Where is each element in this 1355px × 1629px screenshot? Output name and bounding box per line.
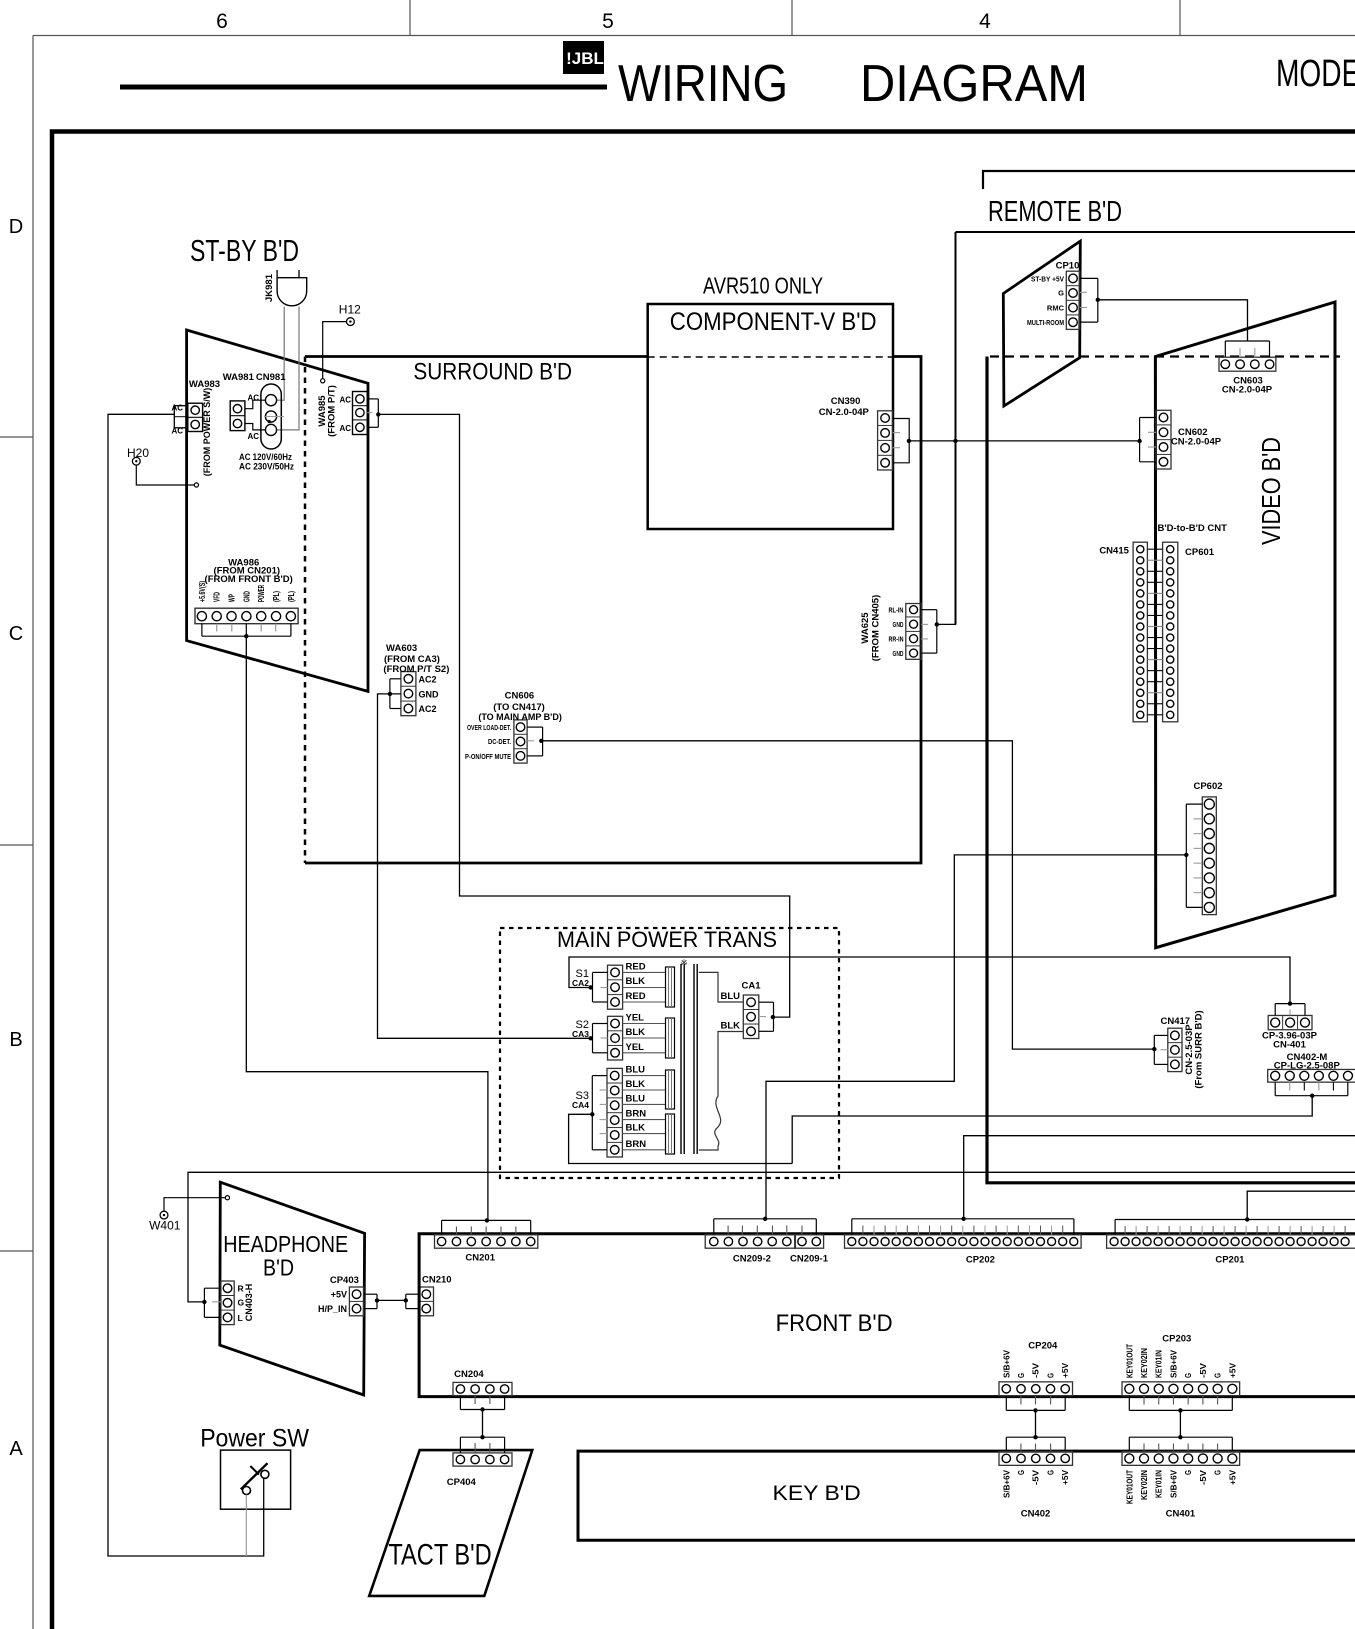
wire CP403 to CN210 <box>377 1299 406 1301</box>
svg-text:+5V: +5V <box>1228 1469 1237 1485</box>
svg-text:CN-2.0-04P: CN-2.0-04P <box>1171 437 1222 448</box>
svg-text:+5V: +5V <box>1061 1362 1070 1378</box>
svg-text:(FROM P/T): (FROM P/T) <box>327 385 338 437</box>
svg-text:HEADPHONE: HEADPHONE <box>223 1231 348 1257</box>
section dashed line through boards <box>990 355 1340 357</box>
wire CN390 to CN602 <box>909 440 1139 442</box>
connector WA985 <box>353 392 368 435</box>
svg-text:AC: AC <box>339 424 351 433</box>
svg-text:CN403-H: CN403-H <box>244 1284 254 1322</box>
svg-text:BRN: BRN <box>626 1139 647 1150</box>
transformer winding S2 <box>666 1018 675 1058</box>
svg-text:Power SW: Power SW <box>200 1424 309 1452</box>
plug JK981 <box>277 270 299 278</box>
svg-text:BLU: BLU <box>720 991 740 1002</box>
grid row tick D/C <box>0 436 33 438</box>
svg-text:G: G <box>1214 1470 1223 1475</box>
svg-text:CA4: CA4 <box>572 1100 589 1110</box>
connector CN402-M CP-LG-2.5-08P <box>1268 1069 1355 1082</box>
svg-text:RED: RED <box>626 961 646 972</box>
wire CP201 to right edge <box>1247 1191 1355 1219</box>
svg-text:BLK: BLK <box>626 1079 646 1090</box>
connector CN390 <box>878 411 893 470</box>
wire CP203 to CN401 <box>1179 1410 1181 1437</box>
connector CN602 <box>1156 410 1171 469</box>
grid column tick 4/3 <box>1179 0 1181 36</box>
connector CP203 <box>1122 1382 1240 1396</box>
connector CP403 <box>349 1287 363 1316</box>
CP10 bracket <box>1080 277 1098 279</box>
grid row tick B/A <box>0 1250 33 1252</box>
CN402-M bracket <box>1274 1082 1276 1096</box>
svg-text:CA2: CA2 <box>572 978 589 988</box>
power switch wire lower terminal <box>245 1495 247 1556</box>
svg-text:WIRING: WIRING <box>618 55 788 113</box>
wire branch to WA625 <box>937 441 956 625</box>
connector CP10 <box>1066 271 1079 329</box>
thick bus wire <box>987 357 1355 1183</box>
CP202 bracket <box>851 1219 853 1235</box>
connector WA983 <box>188 403 203 431</box>
WA985 bracket <box>367 398 378 400</box>
svg-text:CA1: CA1 <box>741 981 761 992</box>
CP203 bracket <box>1128 1396 1130 1411</box>
svg-text:FRONT B'D: FRONT B'D <box>776 1310 893 1337</box>
svg-text:CN390: CN390 <box>831 396 861 407</box>
svg-text:WP: WP <box>228 594 237 602</box>
wire W401 to headphone board <box>164 1198 225 1212</box>
svg-text:+5V: +5V <box>1228 1362 1237 1378</box>
wire S3 to junction <box>569 1114 793 1163</box>
svg-text:CP602: CP602 <box>1193 781 1222 792</box>
connector S3 CA4 <box>607 1068 622 1157</box>
wire H20 to ST-BY board <box>136 465 194 485</box>
connector CA1 <box>743 995 759 1039</box>
svg-text:S/B+6V: S/B+6V <box>1169 1349 1178 1378</box>
connector S1 CA2 <box>608 965 623 1009</box>
CN-401 bracket <box>1274 1004 1276 1016</box>
svg-text:5: 5 <box>602 10 614 33</box>
S3 bracket <box>592 1075 607 1077</box>
svg-text:(From SURR B'D): (From SURR B'D) <box>1194 1010 1205 1088</box>
WA983 mating housing <box>174 406 188 428</box>
svg-text:(FROM CN405): (FROM CN405) <box>871 595 882 662</box>
svg-text:G: G <box>1058 289 1064 298</box>
svg-text:AC: AC <box>339 396 351 405</box>
CN417 bracket <box>1154 1034 1168 1036</box>
svg-text:CN415: CN415 <box>1099 546 1129 557</box>
CP403 bracket <box>364 1293 377 1295</box>
svg-text:!JBL: !JBL <box>566 49 604 68</box>
svg-text:B: B <box>9 1029 22 1051</box>
svg-text:R: R <box>238 1284 244 1294</box>
svg-text:CN204: CN204 <box>454 1369 484 1380</box>
CN401 bracket <box>1128 1437 1130 1451</box>
header underline <box>120 85 607 90</box>
connector CN209-2 <box>705 1235 795 1248</box>
WA986 bracket <box>201 624 203 637</box>
svg-text:CN209-2: CN209-2 <box>733 1254 771 1265</box>
svg-text:G: G <box>1214 1373 1223 1378</box>
svg-text:DIAGRAM: DIAGRAM <box>860 55 1088 113</box>
connector WA625 <box>906 604 922 660</box>
svg-text:GND: GND <box>419 690 440 700</box>
CN602 bracket <box>1140 417 1156 419</box>
svg-text:AC2: AC2 <box>419 675 437 685</box>
connector CN402 <box>999 1451 1073 1465</box>
ST-BY B'D board outline <box>187 330 368 691</box>
wire CP602 to CN209-2 <box>766 855 1186 1219</box>
svg-text:KEY01IN: KEY01IN <box>1155 1350 1164 1378</box>
CN390 bracket <box>893 419 910 463</box>
svg-text:(PL): (PL) <box>287 591 296 602</box>
wire CN606 to CN417 and beyond <box>543 741 1155 1049</box>
WA603 bracket <box>390 678 401 680</box>
svg-text:CN-2.0-04P: CN-2.0-04P <box>819 407 870 418</box>
connector CP204 <box>999 1382 1073 1396</box>
svg-text:S/B+6V: S/B+6V <box>1169 1469 1178 1498</box>
svg-text:CP-LG-2.5-08P: CP-LG-2.5-08P <box>1274 1060 1341 1071</box>
CN403-H bracket <box>204 1287 221 1289</box>
svg-text:B'D-to-B'D CNT: B'D-to-B'D CNT <box>1157 523 1227 534</box>
power switch symbol <box>243 1487 251 1495</box>
svg-text:(PL): (PL) <box>272 591 281 602</box>
svg-text:CP202: CP202 <box>966 1254 995 1265</box>
svg-text:W401: W401 <box>149 1219 181 1233</box>
svg-text:CP203: CP203 <box>1162 1334 1191 1345</box>
svg-text:CN-401: CN-401 <box>1273 1040 1306 1051</box>
svg-text:CN402: CN402 <box>1021 1508 1051 1519</box>
WA625 bracket <box>921 609 937 611</box>
svg-text:RL-IN: RL-IN <box>889 608 904 615</box>
svg-text:CN-2.0-04P: CN-2.0-04P <box>1222 384 1273 395</box>
connector WA986 <box>195 608 298 624</box>
S1 bracket <box>593 971 608 973</box>
svg-text:RMC: RMC <box>1047 304 1065 313</box>
svg-text:MAIN POWER TRANS: MAIN POWER TRANS <box>557 927 777 952</box>
svg-text:G: G <box>1017 1470 1026 1475</box>
svg-text:AC: AC <box>171 404 183 413</box>
connector CN415 <box>1133 542 1147 722</box>
connector CN603 <box>1219 357 1276 371</box>
COMPONENT-V dashed section line <box>648 356 893 358</box>
Power SW box <box>221 1450 291 1509</box>
svg-text:CN210: CN210 <box>422 1275 452 1286</box>
svg-text:BLK: BLK <box>626 1123 646 1134</box>
svg-text:KEY02IN: KEY02IN <box>1140 1470 1149 1500</box>
grid column tick 6/5 <box>409 0 411 36</box>
SURROUND B'D board outline <box>305 357 921 864</box>
wire CP204 to CN402 <box>1035 1410 1037 1437</box>
wire CP202 to right edge <box>964 1136 1355 1219</box>
svg-text:-5V: -5V <box>1032 1469 1041 1485</box>
wire CN204 to CP404 <box>482 1410 484 1438</box>
svg-text:COMPONENT-V B'D: COMPONENT-V B'D <box>670 308 877 336</box>
svg-text:DC-DET.: DC-DET. <box>488 737 511 746</box>
CP204 bracket <box>1005 1396 1007 1411</box>
svg-text:AC: AC <box>247 393 259 402</box>
wire H12 to SURROUND board <box>323 322 347 379</box>
svg-text:ST-BY B'D: ST-BY B'D <box>190 233 299 268</box>
svg-text:AC: AC <box>247 432 259 441</box>
svg-text:(TO MAIN AMP B'D): (TO MAIN AMP B'D) <box>478 712 561 722</box>
transformer winding S3 upper <box>666 1070 675 1109</box>
svg-text:CN606: CN606 <box>505 690 535 701</box>
connector CN210 <box>419 1287 433 1316</box>
svg-text:CN209-1: CN209-1 <box>790 1254 829 1265</box>
svg-text:+5.6V(S): +5.6V(S) <box>198 581 207 602</box>
connector CN417 <box>1168 1028 1182 1071</box>
svg-text:KEY01IN: KEY01IN <box>1155 1470 1164 1498</box>
connector CN209-1 <box>795 1235 824 1248</box>
svg-text:BLK: BLK <box>626 976 646 987</box>
transformer secondary winding <box>699 972 744 1002</box>
svg-text:KEY01OUT: KEY01OUT <box>1125 1470 1134 1504</box>
HEADPHONE B'D board outline <box>220 1182 365 1395</box>
grid row tick C/B <box>0 844 33 846</box>
S1 winding wires <box>623 971 666 973</box>
wire CP10 to CN603 <box>1098 300 1248 341</box>
connector S2 CA3 <box>608 1016 623 1060</box>
svg-text:CN401: CN401 <box>1166 1508 1196 1519</box>
transformer winding S1 <box>666 967 675 1007</box>
wire WA985 to CA1 via surround <box>378 414 789 1017</box>
svg-text:6: 6 <box>216 10 228 33</box>
KEY B'D board outline <box>578 1451 1355 1540</box>
svg-text:AC 230V/50Hz: AC 230V/50Hz <box>239 462 294 473</box>
wire JK981 to CN981 pin3 <box>277 307 299 430</box>
svg-text:BLU: BLU <box>626 1093 646 1104</box>
connector WA981 <box>230 401 245 431</box>
connector CP602 <box>1202 797 1216 915</box>
svg-text:CP403: CP403 <box>330 1275 359 1286</box>
svg-text:AC2: AC2 <box>419 704 437 714</box>
svg-text:JK981: JK981 <box>264 273 275 302</box>
svg-text:C: C <box>9 623 23 645</box>
connector CN403-H <box>221 1281 234 1325</box>
svg-text:GND: GND <box>893 651 904 658</box>
svg-text:-5V: -5V <box>1199 1362 1208 1378</box>
svg-text:GND: GND <box>893 622 904 629</box>
JBL logo <box>563 41 604 74</box>
transformer winding S3 lower <box>666 1114 675 1154</box>
svg-text:BLU: BLU <box>626 1065 646 1076</box>
svg-text:S/B+6V: S/B+6V <box>1002 1469 1011 1498</box>
svg-text:SURROUND B'D: SURROUND B'D <box>413 358 572 385</box>
svg-text:P-ON/OFF MUTE: P-ON/OFF MUTE <box>465 752 511 761</box>
VIDEO B'D board outline <box>1155 302 1335 948</box>
svg-text:REMOTE B'D: REMOTE B'D <box>988 196 1122 228</box>
CP602 bracket <box>1186 803 1202 805</box>
svg-text:KEY B'D: KEY B'D <box>773 1482 861 1505</box>
CA1 bracket <box>759 1001 774 1003</box>
svg-text:CP204: CP204 <box>1028 1340 1058 1351</box>
svg-text:WA981: WA981 <box>223 372 255 383</box>
svg-text:A: A <box>9 1438 23 1460</box>
svg-text:(FROM POWER S/W): (FROM POWER S/W) <box>202 388 212 477</box>
wire WA603 GND to S2 <box>378 694 591 1038</box>
svg-text:G: G <box>1184 1373 1193 1378</box>
svg-text:RR-IN: RR-IN <box>889 637 904 644</box>
svg-text:AVR510 ONLY: AVR510 ONLY <box>703 273 823 299</box>
svg-text:GND: GND <box>242 591 251 602</box>
svg-text:CP404: CP404 <box>447 1477 477 1488</box>
wire JK981 to CN981 pin1 <box>277 307 284 401</box>
svg-text:BLK: BLK <box>720 1021 740 1032</box>
CN603 bracket <box>1224 341 1226 357</box>
svg-text:ST-BY +5V: ST-BY +5V <box>1031 275 1064 284</box>
grid column tick 5/4 <box>791 0 793 36</box>
connector CP404 <box>453 1453 512 1466</box>
CN402 bracket <box>1005 1437 1007 1451</box>
svg-text:L: L <box>238 1313 243 1323</box>
svg-text:YEL: YEL <box>626 1013 645 1024</box>
svg-text:KEY02IN: KEY02IN <box>1140 1348 1149 1378</box>
svg-text:WA603: WA603 <box>386 643 417 654</box>
connector CP202 <box>845 1235 1082 1248</box>
svg-text:D: D <box>9 216 23 238</box>
svg-text:4: 4 <box>979 10 991 33</box>
remote board parallelogram <box>1003 241 1080 406</box>
wire transformer primary S1 feed to CN-401 <box>569 957 1290 1004</box>
svg-text:(FROM P/T S2): (FROM P/T S2) <box>383 664 449 675</box>
svg-text:KEY01OUT: KEY01OUT <box>1125 1344 1134 1378</box>
svg-text:CN981: CN981 <box>256 372 286 383</box>
svg-text:YEL: YEL <box>626 1042 645 1053</box>
svg-text:H/P_IN: H/P_IN <box>318 1304 347 1314</box>
svg-text:BRN: BRN <box>626 1109 647 1120</box>
svg-text:G: G <box>1047 1470 1056 1475</box>
svg-text:OVER LOAD-DET.: OVER LOAD-DET. <box>467 723 511 732</box>
svg-text:WA625: WA625 <box>860 612 871 644</box>
svg-text:G: G <box>1047 1373 1056 1378</box>
transformer core <box>680 964 682 1154</box>
svg-text:CP10: CP10 <box>1056 261 1080 272</box>
terminal H12 <box>347 318 355 326</box>
TACT B'D board outline <box>369 1450 532 1596</box>
svg-text:(FROM FRONT B'D): (FROM FRONT B'D) <box>205 574 293 585</box>
REMOTE B'D callout bracket <box>983 171 1355 189</box>
REMOTE B'D box left edge <box>955 232 957 624</box>
connector CN401 <box>1122 1451 1240 1465</box>
svg-text:+5V: +5V <box>1061 1469 1070 1485</box>
CP404 bracket <box>459 1437 461 1453</box>
CN415-CP601 tie wires <box>1147 548 1162 550</box>
wire CN402-M to S3 <box>792 1096 1312 1164</box>
CN201 bracket <box>441 1220 443 1234</box>
connector CP201 <box>1107 1235 1355 1248</box>
svg-text:+5V: +5V <box>331 1290 347 1300</box>
terminal H20 <box>132 457 140 465</box>
wire WA981 pin1 to CN981 <box>245 400 266 409</box>
svg-text:TACT B'D: TACT B'D <box>388 1539 491 1572</box>
REMOTE B'D box top edge <box>956 231 1355 233</box>
svg-text:VFD: VFD <box>213 592 222 602</box>
svg-text:VIDEO B'D: VIDEO B'D <box>1256 437 1286 545</box>
wire CN403-H to right edge <box>188 1172 1355 1302</box>
svg-text:G: G <box>1184 1470 1193 1475</box>
connector CP601 <box>1163 542 1178 722</box>
svg-text:BLK: BLK <box>626 1027 646 1038</box>
svg-text:AC: AC <box>171 427 183 436</box>
svg-text:CN201: CN201 <box>465 1252 495 1263</box>
svg-text:MODEL: MODEL <box>1276 53 1355 95</box>
svg-text:CP201: CP201 <box>1215 1255 1245 1266</box>
CN606 bracket <box>527 726 543 728</box>
svg-text:MULTI-ROOM: MULTI-ROOM <box>1027 318 1064 327</box>
connector CN201 <box>435 1235 538 1248</box>
CN209 bracket <box>713 1219 715 1235</box>
MAIN POWER TRANS dashed box <box>500 928 839 1178</box>
wire WA981 pin2 to CN981 <box>245 424 266 430</box>
COMPONENT-V B'D board outline <box>648 304 893 529</box>
S2 winding wires <box>623 1023 666 1025</box>
svg-text:S/B+6V: S/B+6V <box>1002 1349 1011 1378</box>
svg-text:CA3: CA3 <box>572 1029 589 1039</box>
svg-text:-5V: -5V <box>1199 1469 1208 1485</box>
connector CN981 <box>261 384 281 449</box>
FRONT B'D board outline <box>419 1234 1355 1397</box>
terminal W401 <box>160 1211 168 1219</box>
svg-text:H12: H12 <box>339 303 361 317</box>
wire WA986 to CN201 <box>246 636 488 1220</box>
S2 bracket <box>593 1023 608 1025</box>
svg-text:RED: RED <box>626 991 646 1002</box>
connector CN606 <box>514 720 527 763</box>
CN204 bracket <box>459 1396 461 1410</box>
CN210 bracket <box>406 1293 419 1295</box>
CP201 bracket <box>1114 1220 1116 1235</box>
svg-text:-5V: -5V <box>1032 1362 1041 1378</box>
svg-text:CP601: CP601 <box>1185 547 1215 558</box>
S3 winding wires <box>622 1075 665 1077</box>
svg-text:H20: H20 <box>127 446 149 460</box>
wire AC power switch loop <box>108 414 264 1556</box>
svg-text:G: G <box>1017 1373 1026 1378</box>
connector CN204 <box>453 1382 512 1395</box>
connector CN-401 CP-3.96-03P <box>1268 1015 1312 1029</box>
border frame outer line <box>33 35 1355 37</box>
connector WA603 <box>401 672 416 716</box>
svg-text:POWER: POWER <box>257 585 266 602</box>
svg-text:B'D: B'D <box>263 1254 294 1280</box>
